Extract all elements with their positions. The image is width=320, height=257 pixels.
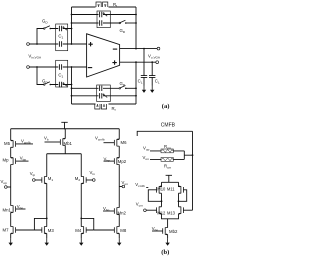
transistor M3 (42, 226, 47, 234)
wire M12 M13 sources join (162, 214, 179, 228)
node Vcm sense dot (192, 154, 194, 156)
wire M7-M3 gate tie (16, 229, 42, 231)
svg-text:Vo,VGA: Vo,VGA (148, 54, 161, 60)
svg-text:Von: Von (122, 180, 129, 186)
node M11 drain dot (178, 200, 180, 202)
wire Rcm top row (150, 150, 184, 152)
box C2 array top (97, 11, 110, 28)
svg-text:CL: CL (155, 79, 160, 85)
wire Mb1 source to rail (64, 129, 66, 139)
transistor Mb2 (163, 227, 168, 235)
svg-text:M11: M11 (167, 187, 175, 192)
box C1 array top (56, 24, 68, 51)
wire feedback left column top (71, 7, 73, 44)
capacitor C1b lower (59, 82, 61, 87)
ground M3 (45, 238, 49, 245)
svg-text:Mb1: Mb1 (64, 141, 73, 146)
transistor Mp2 (114, 157, 119, 165)
wire Von stub (119, 186, 122, 188)
node M4 drain join (80, 218, 82, 220)
svg-text:M4: M4 (75, 228, 82, 233)
node Vin- input terminal (27, 66, 30, 69)
wire input+ row (29, 43, 86, 45)
wire Mb1 drain fold (47, 145, 82, 176)
node Von terminal (122, 185, 125, 188)
switch tiny inside box bottom (63, 83, 67, 87)
node M10 drain dot (161, 200, 163, 202)
wire Mb1 gate lead (45, 141, 61, 143)
wire M11 gate diode loop (179, 190, 187, 202)
wire M1 source down (46, 183, 48, 226)
wire GD to colR bottom (126, 87, 136, 89)
svg-text:Vbp: Vbp (20, 156, 27, 162)
wire right slice column (118, 129, 120, 239)
node Vcm terminal (144, 209, 147, 212)
svg-text:Vcmfb: Vcmfb (135, 182, 145, 188)
transistor M10 (157, 186, 162, 194)
wire Rcm bottom row (150, 158, 184, 160)
node Vin+ input terminal (27, 43, 30, 46)
svg-text:Vb: Vb (44, 135, 49, 141)
transistor M1 (42, 176, 47, 184)
node colL bottom joins (71, 66, 73, 68)
wire M10 gate diode loop (146, 188, 161, 202)
label opamp minus out (113, 48, 117, 50)
wire Rf top row (72, 7, 137, 49)
wire Mb2 source (167, 234, 169, 238)
wire output top (120, 48, 158, 50)
node Vo- terminal (156, 61, 159, 64)
transistor M8 (114, 226, 119, 234)
wire Mn2 gate lead (103, 210, 114, 212)
ground CL right (150, 86, 154, 93)
node colL top joins (71, 28, 73, 30)
svg-text:C1: C1 (58, 73, 63, 79)
wire feedback left column bottom (71, 67, 73, 104)
transistor M2 (81, 176, 86, 184)
svg-text:M12: M12 (157, 210, 166, 215)
transistor Mb1 (60, 138, 65, 146)
wire M3 diode loop (34, 218, 46, 230)
wire C2 bottom row2 (72, 95, 137, 97)
svg-text:GD: GD (120, 28, 126, 34)
svg-text:Vcmfb: Vcmfb (95, 136, 105, 142)
wire M2 source down (80, 183, 82, 226)
capacitor CL right (149, 76, 155, 78)
wire Mb2 gate lead (152, 230, 163, 232)
node out dots (135, 48, 137, 50)
transistor M4 (81, 226, 86, 234)
wire M10 source (161, 182, 163, 187)
svg-text:Mn1: Mn1 (3, 207, 12, 212)
transistor M12 (157, 207, 162, 215)
node Vo+ terminal (157, 47, 160, 50)
transistor Mn1 (11, 205, 16, 213)
wire M4 source (80, 233, 82, 238)
transistor M13 (179, 207, 184, 215)
transistor M6 (114, 139, 119, 147)
switch GD feedback top (119, 20, 127, 24)
svg-text:M2: M2 (75, 176, 81, 182)
svg-text:CMFB: CMFB (161, 122, 176, 128)
svg-text:M3: M3 (48, 228, 55, 233)
wire Rf bottom row (72, 62, 137, 104)
switch tiny inside fb box bottom (103, 94, 107, 98)
labels section (b) (1, 122, 178, 256)
wire M10 drain to M12 (161, 193, 163, 207)
svg-text:Vcm: Vcm (136, 202, 143, 208)
wire M2 gate lead (86, 179, 92, 181)
wire M4 diode loop (81, 218, 94, 230)
svg-text:Rcm: Rcm (164, 163, 172, 169)
svg-text:Vcmfb: Vcmfb (21, 138, 31, 144)
wire CL left drop (143, 49, 145, 86)
label opamp minus in (88, 67, 92, 69)
node fb row1 dots (71, 14, 73, 16)
capacitor C2b (100, 20, 102, 25)
transistor M5 (11, 140, 16, 148)
svg-text:M13: M13 (167, 210, 176, 215)
wire branch up to switch row (37, 29, 44, 45)
wire M3 source (46, 233, 48, 238)
wire Vcm sense column (192, 131, 194, 210)
svg-text:Mn2: Mn2 (118, 211, 127, 216)
capacitor CL left (141, 76, 147, 78)
wire switch to box (51, 28, 72, 30)
svg-text:C1: C1 (58, 34, 63, 40)
wire C2 top row1 (72, 14, 137, 16)
power VDD tick main (61, 122, 67, 129)
wire Mn1 gate lead (16, 208, 26, 210)
svg-text:Mp2: Mp2 (118, 159, 127, 164)
svg-text:(a): (a) (162, 103, 170, 110)
capacitor C1 upper (59, 26, 61, 31)
svg-text:Mp: Mp (3, 158, 10, 163)
wire output bottom (120, 61, 156, 63)
wire M6 gate lead (104, 142, 115, 144)
svg-text:M8: M8 (120, 228, 127, 233)
resistor Rcm top (161, 149, 173, 153)
power VDD tick CMFB (166, 175, 172, 182)
svg-text:M1: M1 (48, 176, 54, 182)
transistor pseudo-resistor Rf top (96, 2, 108, 7)
ground M4 (79, 238, 83, 245)
node Vip terminal (33, 179, 36, 182)
ground M7 (9, 238, 13, 245)
svg-text:Vip: Vip (30, 171, 36, 177)
svg-text:Vin: Vin (90, 170, 96, 176)
switch tiny inside box top (63, 27, 67, 31)
node Vin terminal (93, 179, 96, 182)
wire Vop stub (7, 186, 11, 188)
label opamp plus in (88, 42, 92, 46)
wire GD to colR (126, 22, 136, 24)
wire Mp gate lead (16, 160, 29, 162)
wire CMFB rail (162, 181, 179, 183)
resistor Rcm bottom (161, 158, 173, 162)
wire Rcm midpoint join (184, 151, 192, 160)
wire switch to box bottom (51, 84, 72, 86)
wire M12 gate lead (146, 209, 157, 211)
transistor pseudo-resistor Rf bottom (95, 104, 107, 109)
switch GD input top (44, 26, 52, 30)
node fb row2 dots (71, 22, 73, 24)
transistor Mn2 (114, 207, 119, 215)
svg-text:CL: CL (138, 79, 143, 85)
transistor M7 (11, 226, 16, 234)
svg-text:Mb2: Mb2 (169, 229, 178, 234)
wire CL right drop (151, 62, 153, 85)
svg-text:M10: M10 (157, 187, 166, 192)
wire M5 gate lead (16, 143, 33, 145)
op-amp U1 (87, 34, 120, 77)
capacitor C2a (100, 12, 102, 17)
svg-text:GD: GD (42, 19, 48, 25)
wire input- row (29, 66, 86, 68)
svg-text:Vop: Vop (143, 146, 150, 152)
node M3 drain join (46, 218, 48, 220)
capacitor C2d (100, 93, 102, 98)
labels section (a) (28, 2, 169, 112)
wire Vcmfb corner to CMFB (137, 131, 192, 136)
wire M11 source (178, 182, 180, 187)
wire C2 bottom row1 (72, 87, 120, 89)
wire M4-M8 gate tie (94, 229, 115, 231)
svg-text:(b): (b) (161, 249, 169, 256)
svg-text:M5: M5 (4, 141, 11, 146)
ground CL left (142, 86, 146, 93)
svg-text:M6: M6 (121, 140, 128, 145)
label opamp plus out (112, 60, 116, 64)
svg-text:GD: GD (120, 81, 126, 87)
svg-text:Rf: Rf (112, 106, 116, 112)
wire M1 gate lead (35, 179, 42, 181)
node Vop terminal (5, 186, 8, 189)
svg-text:Vop: Vop (1, 179, 8, 185)
svg-text:Von: Von (143, 155, 150, 161)
ground Mb2 (165, 238, 169, 245)
node junction input- (36, 66, 38, 68)
wire VDD rail (11, 128, 120, 130)
transistor Mp (11, 157, 16, 165)
svg-text:GD: GD (42, 79, 48, 85)
switch GD feedback bottom (119, 86, 127, 90)
node junction input+ (36, 43, 38, 45)
node fb row3 dots (71, 87, 73, 89)
wire branch down to switch row (37, 67, 44, 85)
capacitor C1 lower (on + input wire) (59, 41, 61, 46)
wire C2 top row2 (72, 22, 120, 24)
svg-text:Vin,VGA: Vin,VGA (28, 54, 42, 60)
node fb row4 dots (71, 95, 73, 97)
box C2 array bottom (97, 85, 111, 102)
wire M11 drain to M13 (178, 193, 180, 207)
switch tiny inside fb box (103, 13, 107, 17)
capacitor C2c (100, 86, 102, 91)
wire Mp2 gate lead (104, 160, 115, 162)
svg-text:M7: M7 (3, 228, 10, 233)
transistor M11 (179, 186, 184, 194)
switch GD input bottom (44, 82, 52, 86)
wire M13 gate lead (183, 209, 192, 211)
wire left slice column (10, 129, 12, 239)
capacitor C1b upper (59, 64, 61, 69)
ground M8 (117, 238, 121, 245)
box C1 array bottom (56, 60, 68, 87)
